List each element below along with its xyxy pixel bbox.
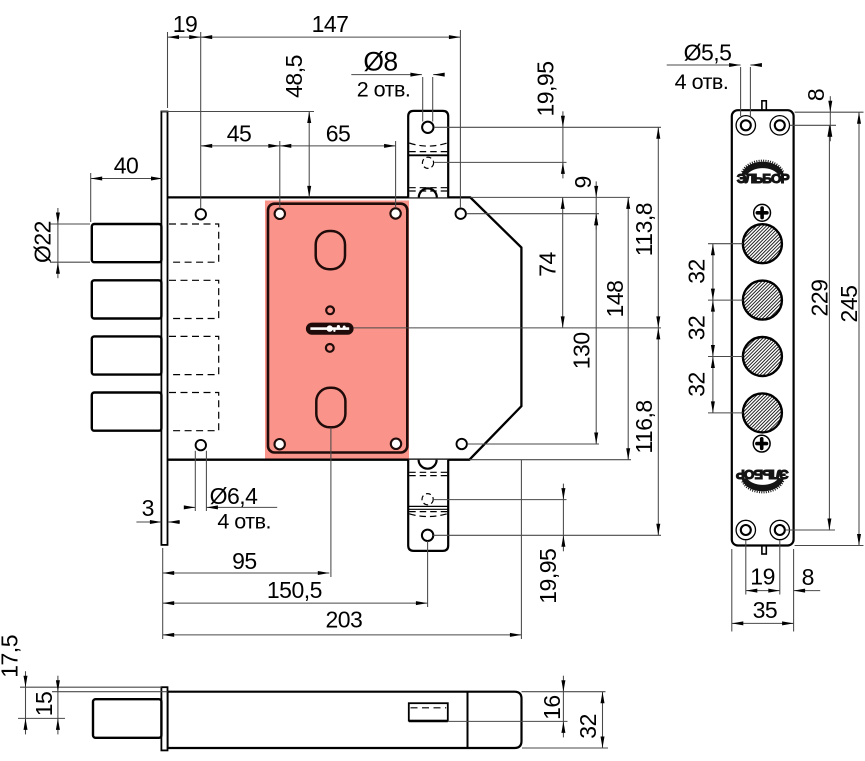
leader bottom tab hole — [433, 534, 661, 536]
cover plate bottom oval cutout — [316, 388, 345, 428]
bolt B2 front — [92, 280, 162, 318]
dim Ø22 — [50, 223, 90, 225]
svg-text:32: 32 — [575, 714, 601, 739]
faceplate screw hole bottom-left — [736, 520, 755, 539]
extension bottom tab hole down — [427, 541, 429, 607]
dim Ø8 2 отв. — [422, 77, 424, 122]
svg-text:ЭЛЬБОР: ЭЛЬБОР — [736, 467, 789, 482]
dim 113,8 — [657, 127, 659, 328]
svg-text:48,5: 48,5 — [281, 55, 307, 98]
dim Ø5,5 4 отв. — [740, 67, 742, 116]
svg-text:32: 32 — [683, 372, 709, 397]
svg-text:74: 74 — [534, 252, 560, 277]
faceplate screw hole top-left — [736, 116, 755, 135]
svg-text:203: 203 — [325, 606, 362, 632]
body screw hole top-right — [456, 209, 466, 219]
svg-text:19,95: 19,95 — [532, 61, 558, 116]
bolt B1 front — [92, 224, 162, 262]
leader top tab dashed circle — [434, 161, 566, 163]
svg-text:17,5: 17,5 — [0, 635, 23, 678]
bottom tab hole — [422, 530, 433, 541]
dim 147 top — [459, 30, 461, 208]
dim 229 — [786, 529, 835, 531]
dim 8 (faceplate top) — [795, 111, 864, 113]
dim 3 — [136, 521, 161, 523]
svg-text:Ø6,4: Ø6,4 — [210, 483, 259, 509]
dim 19 (faceplate bottom) — [745, 540, 747, 595]
body top edge extension — [470, 196, 630, 198]
svg-text:116,8: 116,8 — [631, 400, 657, 453]
svg-text:3: 3 — [142, 495, 154, 521]
bottom tab dashed circle — [422, 494, 433, 505]
dim 65 — [395, 141, 397, 207]
top mounting tab — [408, 111, 448, 197]
leader body hole bottom-right — [467, 443, 599, 445]
leader top tab hole — [434, 126, 661, 128]
faceplate side tick top — [762, 101, 766, 112]
dim 15 — [52, 691, 168, 693]
body screw hole top-left — [196, 209, 206, 219]
dim 19,95 top — [562, 111, 564, 127]
bottom tab dashed line — [409, 511, 447, 513]
svg-text:147: 147 — [312, 11, 349, 37]
faceplate screw hole top-right — [770, 116, 789, 135]
svg-text:245: 245 — [836, 286, 862, 323]
faceplate side tick bottom — [762, 546, 766, 555]
dim 35 — [731, 549, 733, 632]
bolt hole circle 1 (hatched) — [743, 224, 782, 263]
bottom tab solid pair — [408, 505, 448, 507]
cover plate corner hole BL — [275, 439, 285, 449]
svg-text:Ø5,5: Ø5,5 — [684, 40, 732, 66]
svg-text:15: 15 — [31, 692, 57, 717]
dim 203 — [163, 634, 522, 636]
bolt B3 hidden dashed outline — [169, 336, 219, 374]
brand logo top — [737, 161, 790, 186]
svg-text:35: 35 — [753, 597, 778, 623]
svg-text:Ø22: Ø22 — [29, 221, 55, 263]
leader bottom tab dashed circle — [433, 499, 566, 501]
side view separator line — [467, 692, 469, 748]
svg-text:4 отв.: 4 отв. — [675, 70, 729, 94]
dim 32 x3 (bolt spacing) — [712, 244, 714, 413]
cover plate outline — [268, 204, 407, 453]
svg-text:Ø8: Ø8 — [363, 46, 397, 76]
bolt hole circle 3 (hatched) — [743, 337, 782, 376]
svg-text:45: 45 — [227, 120, 252, 146]
keyhole slot — [306, 323, 354, 335]
bottom tab semicircle notch — [419, 460, 437, 469]
side view faceplate strip — [161, 687, 167, 750]
side view body — [168, 692, 522, 748]
highlighted cover plate fill — [265, 201, 409, 459]
dim 245 — [795, 545, 864, 547]
bolt B4 front — [92, 393, 162, 431]
cover plate corner hole TR — [390, 208, 400, 218]
top tab solid line — [408, 154, 448, 156]
dim 95 — [163, 572, 330, 574]
body bottom edge extension — [469, 459, 631, 461]
top tab dashed circle — [422, 157, 433, 168]
phillips screw top — [754, 204, 771, 221]
dim 40 — [90, 173, 92, 222]
svg-text:95: 95 — [232, 548, 257, 574]
svg-text:2 отв.: 2 отв. — [357, 78, 411, 102]
dim 130 — [595, 214, 597, 444]
svg-text:19,95: 19,95 — [535, 549, 561, 604]
svg-text:229: 229 — [807, 280, 833, 317]
dim 45 — [279, 141, 281, 207]
dim 48,5 — [161, 111, 314, 113]
dim 148 — [627, 197, 629, 459]
dim 116,8 — [657, 328, 659, 535]
side view latch — [409, 703, 448, 720]
bolt B1 hidden dashed outline — [169, 224, 219, 262]
bottom mounting tab — [408, 460, 448, 551]
svg-text:8: 8 — [802, 564, 814, 590]
dim 19,95 bottom — [562, 484, 564, 500]
cover plate corner hole TL — [275, 209, 285, 219]
leader bolt hole 1 — [708, 243, 743, 245]
dim Ø6,4 4 отв. — [194, 451, 196, 511]
svg-text:19: 19 — [750, 563, 775, 589]
bolt B3 front — [92, 336, 162, 374]
svg-text:65: 65 — [326, 120, 351, 146]
top tab dashed line — [409, 151, 447, 153]
dim 17,5 — [20, 686, 161, 688]
extension plate left bottom — [162, 548, 164, 639]
faceplate plan outline — [732, 110, 794, 545]
top tab dashed pair — [409, 187, 447, 189]
dim 150,5 — [163, 602, 428, 604]
lock body outline — [168, 197, 522, 459]
svg-text:113,8: 113,8 — [631, 203, 657, 256]
dim 19 top — [167, 32, 169, 108]
keyhole leader line — [354, 327, 661, 329]
svg-text:40: 40 — [114, 152, 139, 178]
svg-text:148: 148 — [602, 281, 628, 318]
body screw hole bottom-left — [196, 440, 206, 450]
svg-text:ЭЛЬБОР: ЭЛЬБОР — [737, 171, 790, 186]
bolt B4 hidden dashed outline — [169, 393, 219, 431]
extension body right edge down — [520, 460, 522, 639]
phillips screw bottom — [753, 435, 770, 452]
dim 8 (faceplate bottom) — [793, 549, 795, 632]
brand logo bottom (rotated) — [736, 467, 789, 492]
dim 16 — [522, 691, 606, 693]
faceplate front strip — [161, 112, 167, 545]
svg-text:19: 19 — [173, 11, 198, 37]
leader bolt hole 3 — [708, 356, 743, 358]
bolt hole circle 2 (hatched) — [743, 281, 782, 320]
dim 74 — [562, 197, 564, 328]
keyhole pin circle below — [326, 344, 334, 352]
bolt hole circle 4 (hatched) — [743, 393, 782, 432]
latch bottom line + leader 16 — [409, 720, 568, 722]
svg-text:8: 8 — [803, 89, 829, 101]
body screw hole bottom-right — [457, 439, 467, 449]
keyhole pin circle above — [326, 306, 334, 314]
faceplate screw hole bottom-right — [770, 520, 789, 539]
svg-text:150,5: 150,5 — [267, 577, 322, 603]
cover plate corner hole BR — [391, 439, 401, 449]
extension bottom oval center — [330, 428, 332, 578]
dim 9 — [595, 181, 597, 197]
dim 32 (side view) — [522, 747, 608, 749]
bolt B2 hidden dashed outline — [169, 280, 219, 318]
cover plate top oval cutout — [316, 231, 345, 269]
top tab hole — [422, 122, 433, 133]
svg-text:130: 130 — [569, 332, 595, 369]
leader body hole top-right — [466, 213, 599, 215]
bottom tab dashed pair — [409, 471, 447, 473]
svg-text:16: 16 — [539, 695, 565, 720]
leader bolt hole 2 — [708, 299, 743, 301]
svg-text:32: 32 — [683, 316, 709, 341]
svg-text:9: 9 — [570, 176, 596, 188]
svg-text:32: 32 — [683, 259, 709, 284]
top tab semicircle notch — [419, 188, 437, 197]
side view bolt — [93, 699, 161, 738]
leader bolt hole 4 — [708, 412, 743, 414]
svg-text:4 отв.: 4 отв. — [217, 510, 271, 534]
top tab dashed arc — [409, 143, 447, 146]
bottom tab dashed arc — [409, 514, 447, 517]
